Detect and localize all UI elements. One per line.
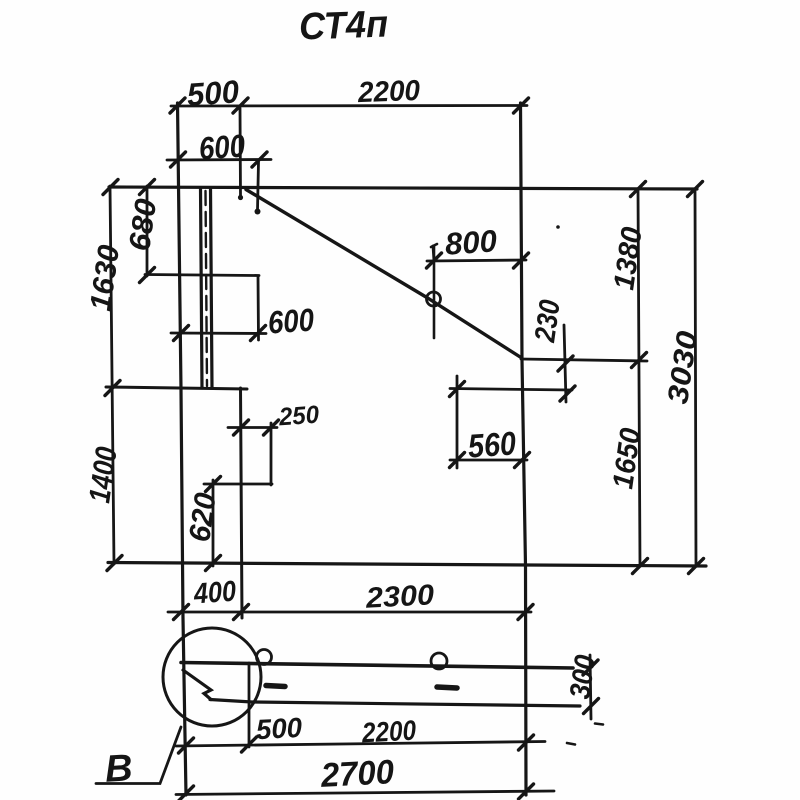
embed extension x457 [456,376,459,468]
speck dash b [567,743,575,745]
dimension 250 [228,420,279,485]
svg-text:800: 800 [444,223,498,262]
lifting loop on diagonal [427,292,441,306]
tick at embed point [450,382,465,397]
svg-text:В: В [104,747,134,790]
dimension 600 top [167,152,271,210]
panel left edge [178,103,187,795]
svg-text:СТ4п: СТ4п [298,3,388,48]
dimension 1380 [631,182,648,574]
section embed dash left [266,686,285,687]
dimension 620 [206,477,221,571]
dimension 500 top [170,98,529,196]
diagonal slope line [246,190,521,358]
svg-text:2200: 2200 [357,75,421,109]
dimension 500-2200 section [176,735,545,753]
svg-text:400: 400 [192,576,237,611]
extension line y389 [450,389,572,391]
extension line y484 [204,483,272,486]
dimension 400 bottom [168,605,533,620]
dimension 2700 section [176,784,554,800]
svg-text:560: 560 [467,424,518,464]
svg-text:1400: 1400 [83,445,124,505]
speck [556,225,560,229]
svg-text:1650: 1650 [607,426,647,491]
dimension 800 [427,244,529,268]
svg-text:3030: 3030 [662,329,704,406]
section left end rebate profile [183,670,211,700]
section vertical x249 [248,663,251,747]
svg-text:1380: 1380 [608,225,648,292]
svg-text:600: 600 [198,127,247,166]
section loop left [257,650,272,665]
loop dot at x257 [255,209,261,215]
svg-text:300: 300 [564,653,602,701]
dimension 600 middle [171,276,266,341]
svg-text:2200: 2200 [360,715,417,749]
slot right line [211,188,213,388]
panel bottom edge [108,563,706,567]
dimension 1630 left [103,180,122,571]
panel right edge [521,103,527,795]
svg-text:500: 500 [255,712,303,745]
section bottom line [210,700,580,707]
slot left line [201,188,203,388]
dimension 300 section [583,655,599,719]
extension line y360 right [521,359,647,361]
dimension 3030 [688,182,704,574]
svg-text:2700: 2700 [319,753,395,795]
section embed dash right [437,687,457,688]
dimension 560 [450,453,530,468]
section top line [181,663,573,669]
leader line to В [96,727,181,784]
svg-text:230: 230 [529,298,567,345]
detail circle [163,628,261,726]
dimension 680 [140,180,155,283]
slot dashed centerline [206,191,208,386]
svg-text:2300: 2300 [364,579,435,615]
loop extension vertical x434 [433,246,436,338]
svg-text:680: 680 [123,197,163,253]
step line y388 [106,387,247,389]
speck dash a [595,724,603,725]
panel top edge [109,187,697,189]
extension line y275 [145,275,259,276]
dimension 230 [558,325,575,402]
svg-text:1630: 1630 [84,243,126,313]
step vertical x241 [241,388,243,618]
svg-text:620: 620 [183,491,223,544]
svg-text:600: 600 [267,301,316,340]
section loop right [431,653,447,669]
loop dot at x240 [238,195,243,200]
svg-text:500: 500 [186,73,241,113]
svg-text:250: 250 [277,401,320,432]
